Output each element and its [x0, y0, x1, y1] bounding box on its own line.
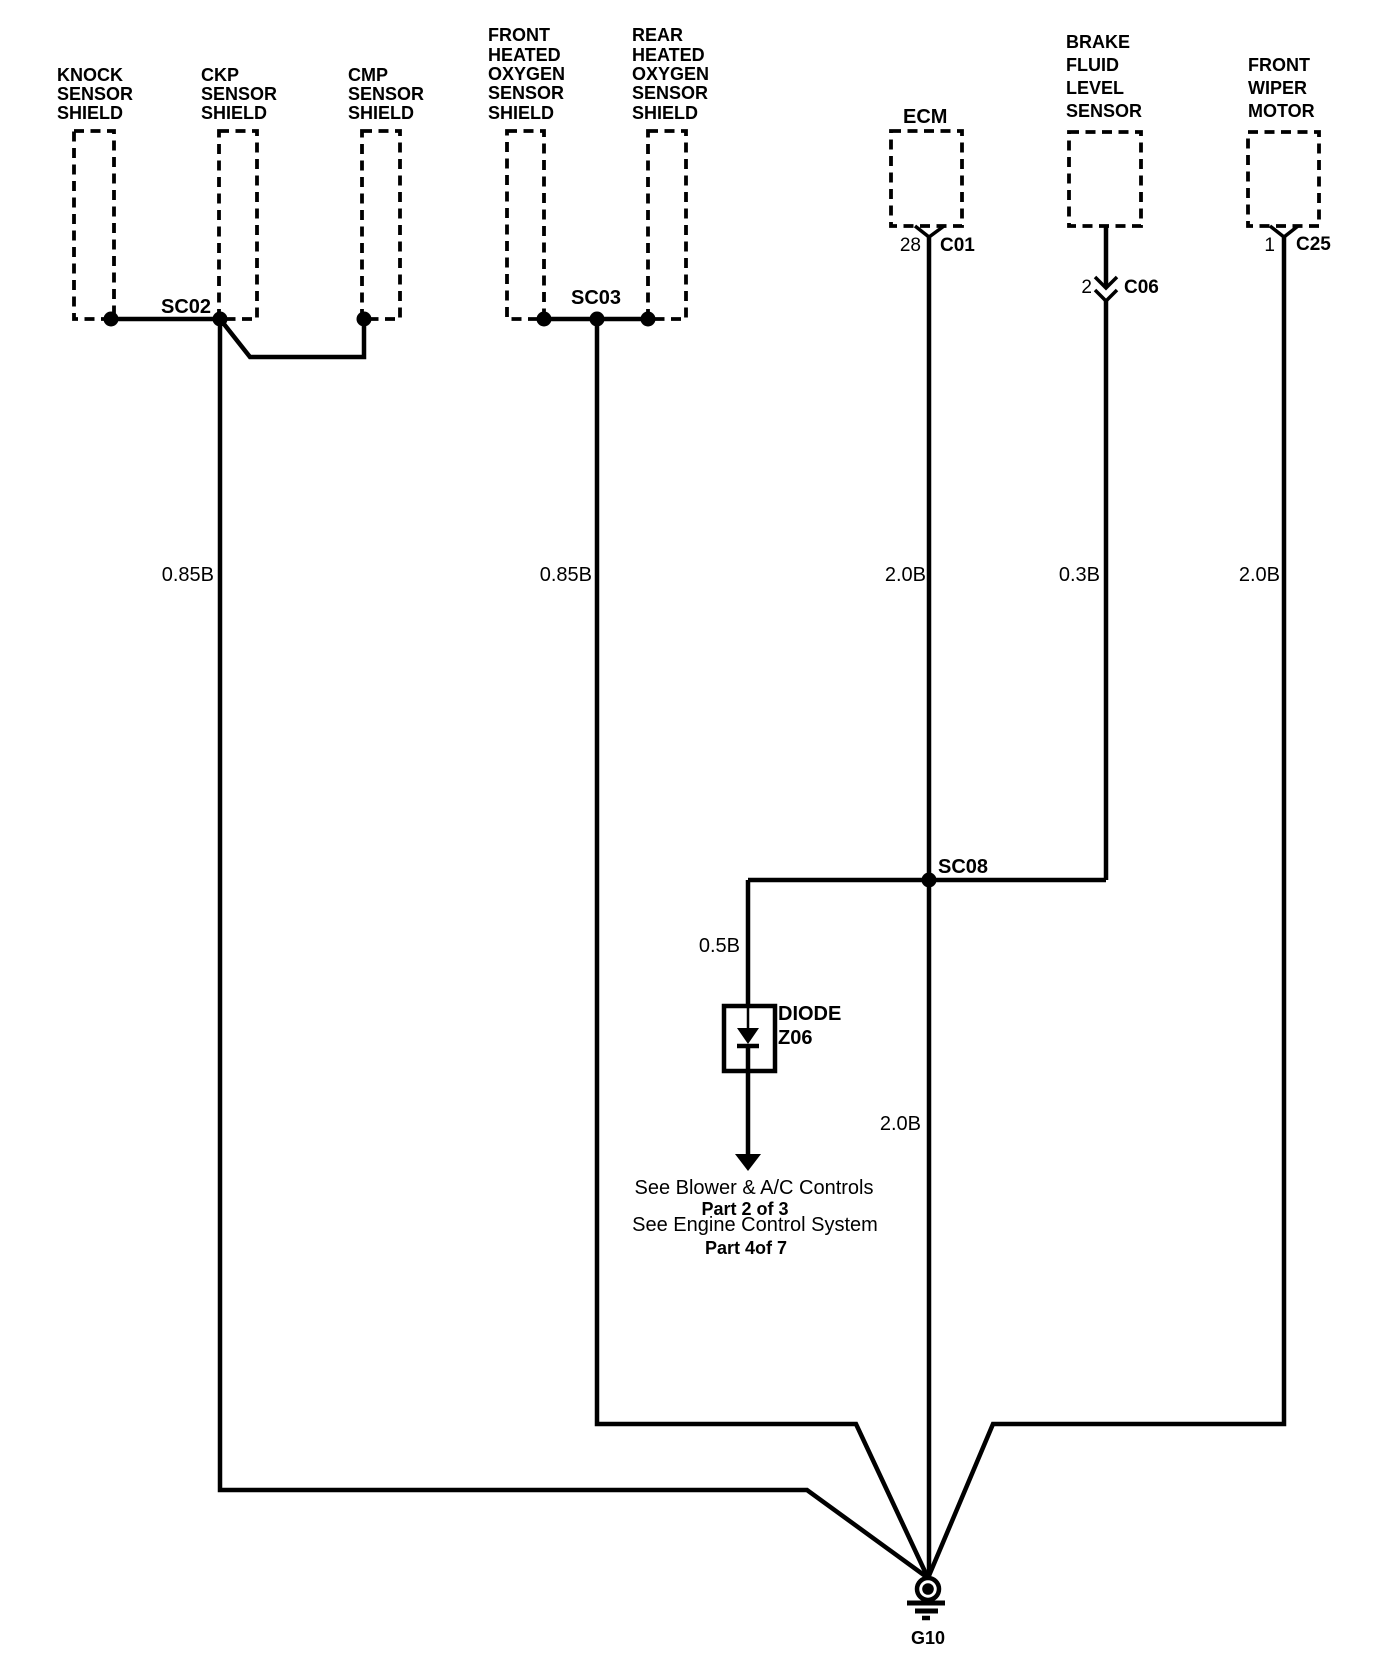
- wire 0.3B from C06 to SC08: [1104, 301, 1109, 880]
- wire SC03 down to bottom, 0.85B run: [597, 319, 928, 1578]
- svg-text:Part 4of 7: Part 4of 7: [705, 1238, 787, 1258]
- rear heated oxygen sensor shield box: [648, 131, 686, 319]
- svg-text:SENSOR: SENSOR: [632, 83, 708, 103]
- junction dot SC03: [590, 312, 605, 327]
- svg-text:See Engine Control System: See Engine Control System: [632, 1214, 878, 1236]
- knock sensor shield box: [74, 131, 114, 319]
- svg-text:SC08: SC08: [938, 856, 988, 878]
- svg-text:2.0B: 2.0B: [880, 1113, 921, 1135]
- knock sensor shield label: [57, 65, 133, 123]
- svg-text:SENSOR: SENSOR: [348, 84, 424, 104]
- wire front O2 to rear O2 through SC03: [544, 317, 648, 322]
- svg-text:HEATED: HEATED: [632, 45, 705, 65]
- svg-text:OXYGEN: OXYGEN: [632, 64, 709, 84]
- svg-text:C06: C06: [1124, 277, 1159, 298]
- svg-text:2: 2: [1081, 277, 1092, 298]
- svg-text:SHIELD: SHIELD: [632, 103, 698, 123]
- svg-text:BRAKE: BRAKE: [1066, 32, 1130, 52]
- svg-text:28: 28: [900, 235, 921, 256]
- svg-text:Z06: Z06: [778, 1027, 812, 1049]
- wire wiper motor to ground 2.0B run: [928, 237, 1284, 1578]
- junction dot SC02: [213, 312, 228, 327]
- junction dot knock: [104, 312, 119, 327]
- front wiper motor label: [1248, 55, 1315, 121]
- svg-text:FRONT: FRONT: [488, 25, 550, 45]
- ECM box U-ECM: [891, 131, 962, 226]
- svg-text:0.5B: 0.5B: [699, 935, 740, 957]
- rear heated oxygen sensor shield label: [632, 25, 709, 123]
- svg-text:FRONT: FRONT: [1248, 55, 1310, 75]
- svg-text:0.3B: 0.3B: [1059, 564, 1100, 586]
- arrowhead to see-reference: [735, 1154, 761, 1171]
- svg-text:SHIELD: SHIELD: [348, 103, 414, 123]
- junction dot rear O2: [641, 312, 656, 327]
- wiper connector fork: [1270, 226, 1298, 237]
- svg-text:SENSOR: SENSOR: [57, 84, 133, 104]
- svg-text:REAR: REAR: [632, 25, 683, 45]
- front heated oxygen sensor shield box: [507, 131, 544, 319]
- CKP sensor shield label: [201, 65, 277, 123]
- brake fluid level sensor label: [1066, 32, 1142, 121]
- wire SC02 down to bottom, 0.85B run: [220, 319, 928, 1578]
- svg-text:0.85B: 0.85B: [540, 564, 592, 586]
- connector C06 arrow half: [1095, 277, 1117, 288]
- svg-text:SHIELD: SHIELD: [488, 103, 554, 123]
- svg-text:See Blower & A/C Controls: See Blower & A/C Controls: [635, 1177, 874, 1199]
- svg-text:CKP: CKP: [201, 65, 239, 85]
- svg-text:WIPER: WIPER: [1248, 78, 1307, 98]
- diode Z06 box: [724, 1006, 775, 1071]
- ground G10 symbol: [907, 1578, 945, 1618]
- wire 0.5B from SC08 to diode: [746, 880, 751, 1008]
- svg-text:SC03: SC03: [571, 287, 621, 309]
- svg-text:SHIELD: SHIELD: [201, 103, 267, 123]
- svg-text:1: 1: [1264, 235, 1275, 256]
- svg-text:SHIELD: SHIELD: [57, 103, 123, 123]
- front wiper motor box: [1248, 132, 1319, 226]
- svg-text:C01: C01: [940, 235, 975, 256]
- svg-text:SENSOR: SENSOR: [201, 84, 277, 104]
- svg-text:2.0B: 2.0B: [1239, 564, 1280, 586]
- see-reference text: [632, 1177, 878, 1258]
- svg-text:G10: G10: [911, 1628, 945, 1648]
- svg-text:SENSOR: SENSOR: [1066, 101, 1142, 121]
- CMP sensor shield label: [348, 65, 424, 123]
- wire brake fluid sensor down to C06: [1104, 226, 1109, 287]
- svg-text:OXYGEN: OXYGEN: [488, 64, 565, 84]
- svg-text:DIODE: DIODE: [778, 1003, 841, 1025]
- svg-text:C25: C25: [1296, 234, 1331, 255]
- svg-text:2.0B: 2.0B: [885, 564, 926, 586]
- svg-text:FLUID: FLUID: [1066, 55, 1119, 75]
- junction dot front O2: [537, 312, 552, 327]
- CKP sensor shield box: [219, 131, 257, 319]
- wire knock dot to SC02: [111, 317, 220, 322]
- CMP sensor shield box: [362, 131, 400, 319]
- svg-text:MOTOR: MOTOR: [1248, 101, 1315, 121]
- svg-text:ECM: ECM: [903, 106, 947, 128]
- svg-text:HEATED: HEATED: [488, 45, 561, 65]
- ECM connector fork: [915, 226, 944, 237]
- splice SC08 horizontal wire: [748, 878, 1106, 883]
- connector C06 socket half: [1095, 290, 1117, 301]
- svg-text:SC02: SC02: [161, 296, 211, 318]
- svg-text:LEVEL: LEVEL: [1066, 78, 1124, 98]
- junction dot CMP: [357, 312, 372, 327]
- diode Z06 symbol: [737, 1008, 759, 1046]
- wire ECM to ground 2.0B run: [927, 237, 932, 1578]
- svg-text:SENSOR: SENSOR: [488, 83, 564, 103]
- svg-text:0.85B: 0.85B: [162, 564, 214, 586]
- brake fluid level sensor box: [1069, 132, 1141, 226]
- svg-text:CMP: CMP: [348, 65, 388, 85]
- junction dot SC08: [922, 873, 937, 888]
- front heated oxygen sensor shield label: [488, 25, 565, 123]
- svg-text:KNOCK: KNOCK: [57, 65, 123, 85]
- wire CMP branch to SC02: [220, 319, 364, 357]
- wire from diode to see-reference arrow: [746, 1046, 751, 1155]
